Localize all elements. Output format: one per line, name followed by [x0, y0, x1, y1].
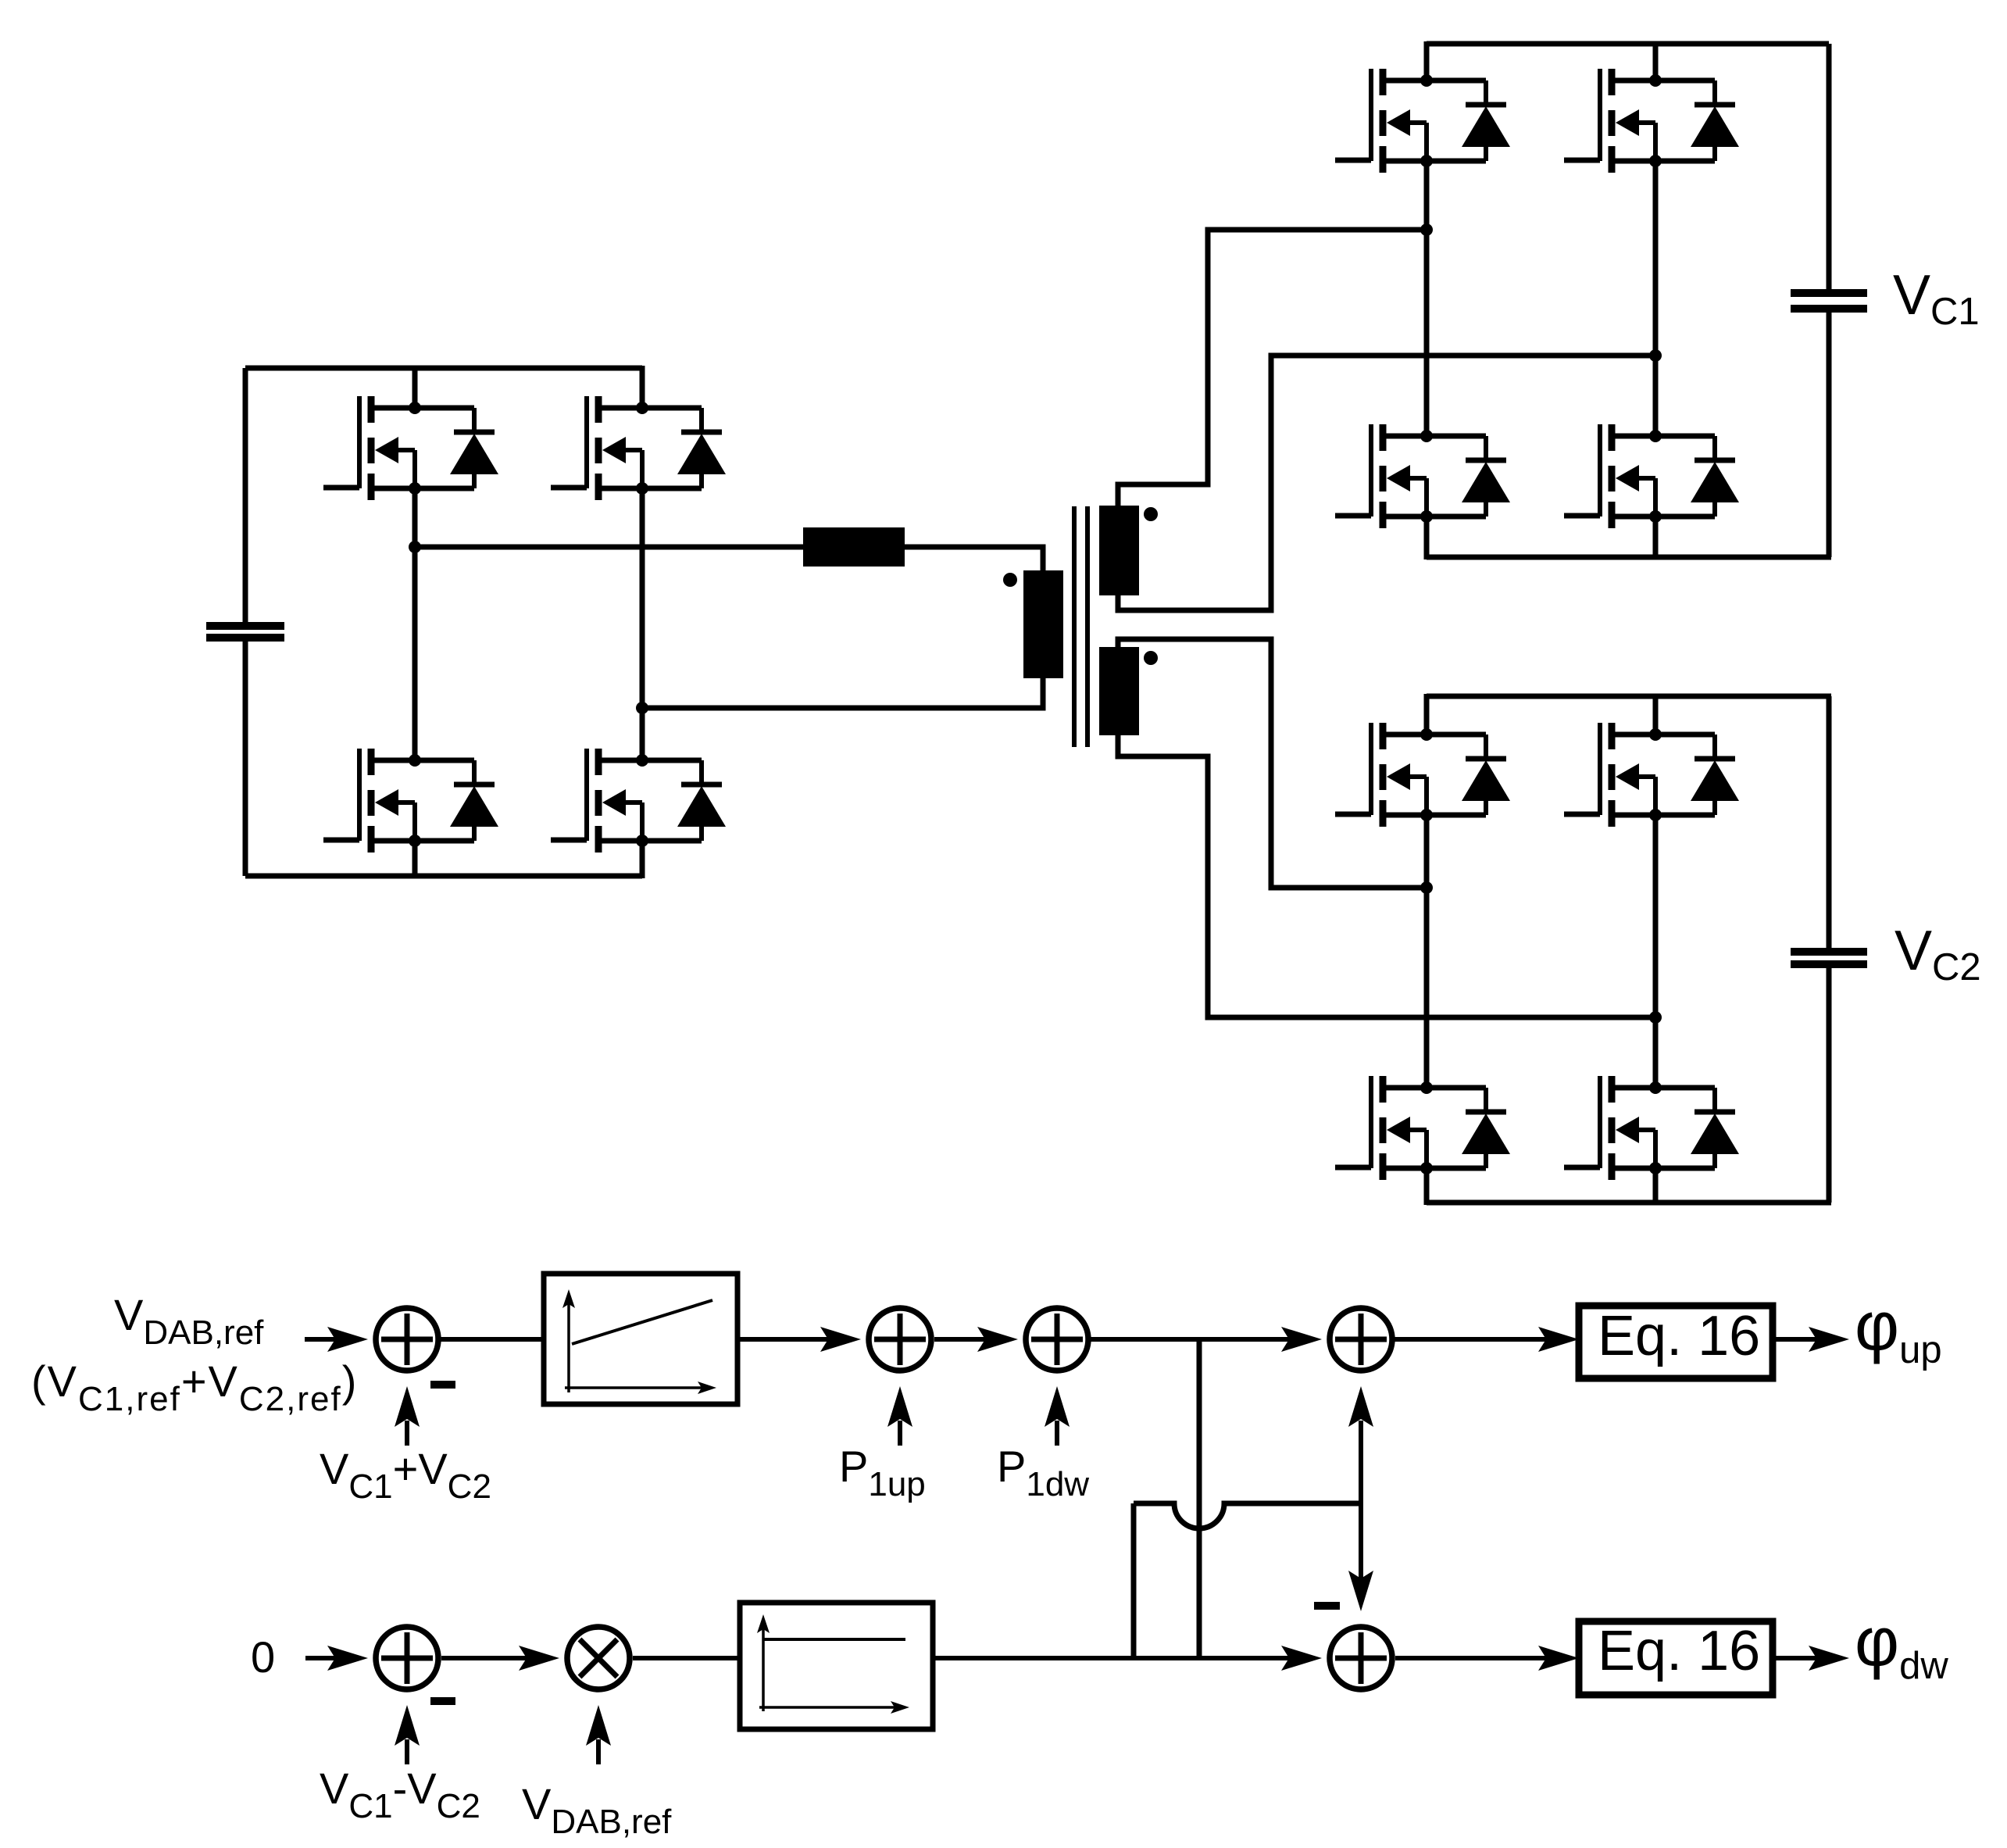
- wire upper bridge left leg source stub: [1424, 517, 1430, 559]
- capacitor C2: [1791, 952, 1867, 964]
- wire left bridge left leg drain stub: [412, 366, 418, 408]
- wire capacitor C1 top lead: [1827, 44, 1832, 289]
- multiplier M1: [567, 1627, 630, 1689]
- wire arrow Eq16 lower to phi_dw: [1773, 1646, 1849, 1671]
- block Eq. 16 upper: [1579, 1305, 1773, 1378]
- transistor Q1 top-left of primary bridge: [323, 396, 498, 500]
- wire arrow into summer S1: [305, 1327, 368, 1352]
- wire upper bridge right leg source stub: [1653, 517, 1659, 559]
- wire lower bridge right leg mid: [1653, 815, 1659, 1088]
- svg-text:0: 0: [251, 1632, 275, 1682]
- svg-text:Eq. 16: Eq. 16: [1598, 1620, 1760, 1682]
- wire arrow into S3 bottom: [1045, 1386, 1070, 1446]
- wire feedback arrow into S1 bottom: [395, 1386, 420, 1446]
- wire lower secondary top lead to lower bridge left midpoint: [1118, 639, 1427, 888]
- wire inductor to primary winding: [905, 547, 1043, 570]
- wire upper bridge left leg mid: [1424, 161, 1430, 436]
- block Eq. 16 lower: [1579, 1620, 1773, 1695]
- label minus sign at S1: [430, 1381, 455, 1389]
- label minus sign at S5 top: [1314, 1602, 1340, 1610]
- transistor Q12 bottom-right of lower secondary bridge: [1564, 1076, 1739, 1180]
- wire arrow into summer S6: [305, 1646, 368, 1671]
- transformer primary winding: [1023, 570, 1063, 678]
- transistor Q7 bottom-left of upper secondary bridge: [1335, 424, 1510, 528]
- transistor Q11 bottom-left of lower secondary bridge: [1335, 1076, 1510, 1180]
- wire upper bridge top rail: [1427, 41, 1829, 47]
- node upper bridge left midpoint junction: [1420, 223, 1433, 236]
- wire lower bridge right leg source stub: [1653, 1168, 1659, 1205]
- transformer secondary winding lower: [1099, 647, 1139, 735]
- transistor Q6 top-right of upper secondary bridge: [1564, 69, 1739, 173]
- inductor L series: [803, 527, 905, 567]
- wire upper secondary bottom lead to upper bridge right midpoint: [1118, 356, 1655, 610]
- node A primary bridge left midpoint: [409, 541, 421, 553]
- wire arrow S3 to summer S4: [1090, 1327, 1322, 1352]
- wire input cap top lead: [243, 368, 248, 622]
- summer S5: [1330, 1627, 1392, 1689]
- transistor Q3 bottom-left of primary bridge: [323, 749, 498, 853]
- capacitor C_dc input, left plate pair: [206, 626, 284, 638]
- block I controller balance loop: [740, 1603, 933, 1729]
- label minus sign at S6: [430, 1697, 455, 1705]
- wire left bridge left leg source stub: [412, 841, 418, 878]
- wire node B to primary winding bottom: [642, 678, 1043, 708]
- wire left bridge right leg drain stub: [640, 366, 645, 408]
- wire left bridge left leg mid: [412, 488, 418, 760]
- wire left bridge bottom rail: [245, 874, 642, 879]
- wire lower bridge left leg mid: [1424, 815, 1430, 1088]
- wire arrow S5 to Eq16 block lower: [1395, 1646, 1579, 1671]
- wire lower secondary bottom lead to lower bridge right midpoint: [1118, 735, 1655, 1017]
- node lower bridge left midpoint junction: [1420, 881, 1433, 894]
- wire capacitor C2 bottom lead: [1827, 968, 1832, 1203]
- transformer core line 1: [1072, 506, 1077, 747]
- summer S1: [376, 1308, 438, 1371]
- wire feedback arrow into S6 bottom: [395, 1705, 420, 1764]
- wire lower bridge right leg drain stub: [1653, 694, 1659, 735]
- transistor Q10 top-right of lower secondary bridge: [1564, 723, 1739, 827]
- svg-text:Eq. 16: Eq. 16: [1598, 1305, 1760, 1367]
- wire arrow up into S4 bottom: [1348, 1386, 1373, 1507]
- wire upper bridge right leg mid: [1653, 161, 1659, 436]
- block PI controller voltage sum loop: [544, 1274, 737, 1404]
- transistor Q5 top-left of upper secondary bridge: [1335, 69, 1510, 173]
- wire arrow I block to summer S5: [933, 1646, 1322, 1671]
- wire arrow into S2 bottom: [887, 1386, 912, 1446]
- wire upper bridge bottom rail: [1427, 555, 1831, 560]
- transformer core line 2: [1085, 506, 1090, 747]
- node lower bridge right midpoint junction: [1649, 1011, 1662, 1024]
- node B primary bridge right midpoint: [636, 702, 648, 714]
- wire upper bridge left leg drain stub: [1424, 41, 1430, 80]
- wire lower bridge bottom rail: [1427, 1200, 1831, 1206]
- wire capacitor C2 top lead: [1827, 696, 1832, 948]
- node upper secondary polarity dot: [1144, 507, 1158, 521]
- wire left bridge right leg source stub: [640, 841, 645, 878]
- wire branch from lower path up: [1131, 1503, 1137, 1658]
- wire left bridge top rail: [245, 366, 642, 371]
- wire S1 to PI block: [438, 1337, 545, 1342]
- wire arrow PI block to summer S2: [737, 1327, 861, 1352]
- summer S6: [376, 1627, 438, 1689]
- wire arrow down into S5 top: [1348, 1500, 1373, 1611]
- wire multiplier to I block: [633, 1656, 740, 1660]
- wire upper bridge right leg drain stub: [1653, 41, 1659, 80]
- wire lower bridge left leg drain stub: [1424, 694, 1430, 735]
- wire left bridge right leg mid: [640, 488, 645, 760]
- wire node A to inductor: [415, 545, 803, 550]
- node lower secondary polarity dot: [1144, 651, 1158, 665]
- transistor Q4 bottom-right of primary bridge: [551, 749, 726, 853]
- wire arrow into multiplier bottom: [586, 1705, 611, 1764]
- wire arrow S2 to summer S3: [934, 1327, 1018, 1352]
- wire crossover hop horizontal: [1134, 1503, 1361, 1528]
- wire arrow S4 to Eq16 block upper: [1394, 1327, 1579, 1352]
- wire branch from upper path down: [1197, 1339, 1202, 1658]
- wire arrow S6 to multiplier: [441, 1646, 559, 1671]
- transformer secondary winding upper: [1099, 506, 1139, 595]
- node upper bridge right midpoint junction: [1649, 349, 1662, 362]
- wire lower bridge left leg source stub: [1424, 1168, 1430, 1205]
- node primary polarity dot: [1003, 573, 1017, 587]
- wire arrow Eq16 upper to phi_up: [1773, 1327, 1849, 1352]
- transistor Q9 top-left of lower secondary bridge: [1335, 723, 1510, 827]
- transistor Q8 bottom-right of upper secondary bridge: [1564, 424, 1739, 528]
- capacitor C1: [1791, 293, 1867, 309]
- wire capacitor C1 bottom lead: [1827, 313, 1832, 557]
- summer S3 P1dw: [1026, 1308, 1088, 1371]
- summer S4: [1330, 1308, 1392, 1371]
- wire lower bridge top rail: [1427, 694, 1831, 699]
- wire upper secondary top lead to upper bridge left midpoint: [1118, 230, 1427, 506]
- summer S2 P1up: [869, 1308, 931, 1371]
- transistor Q2 top-right of primary bridge: [551, 396, 726, 500]
- wire input cap bottom lead: [243, 642, 248, 876]
